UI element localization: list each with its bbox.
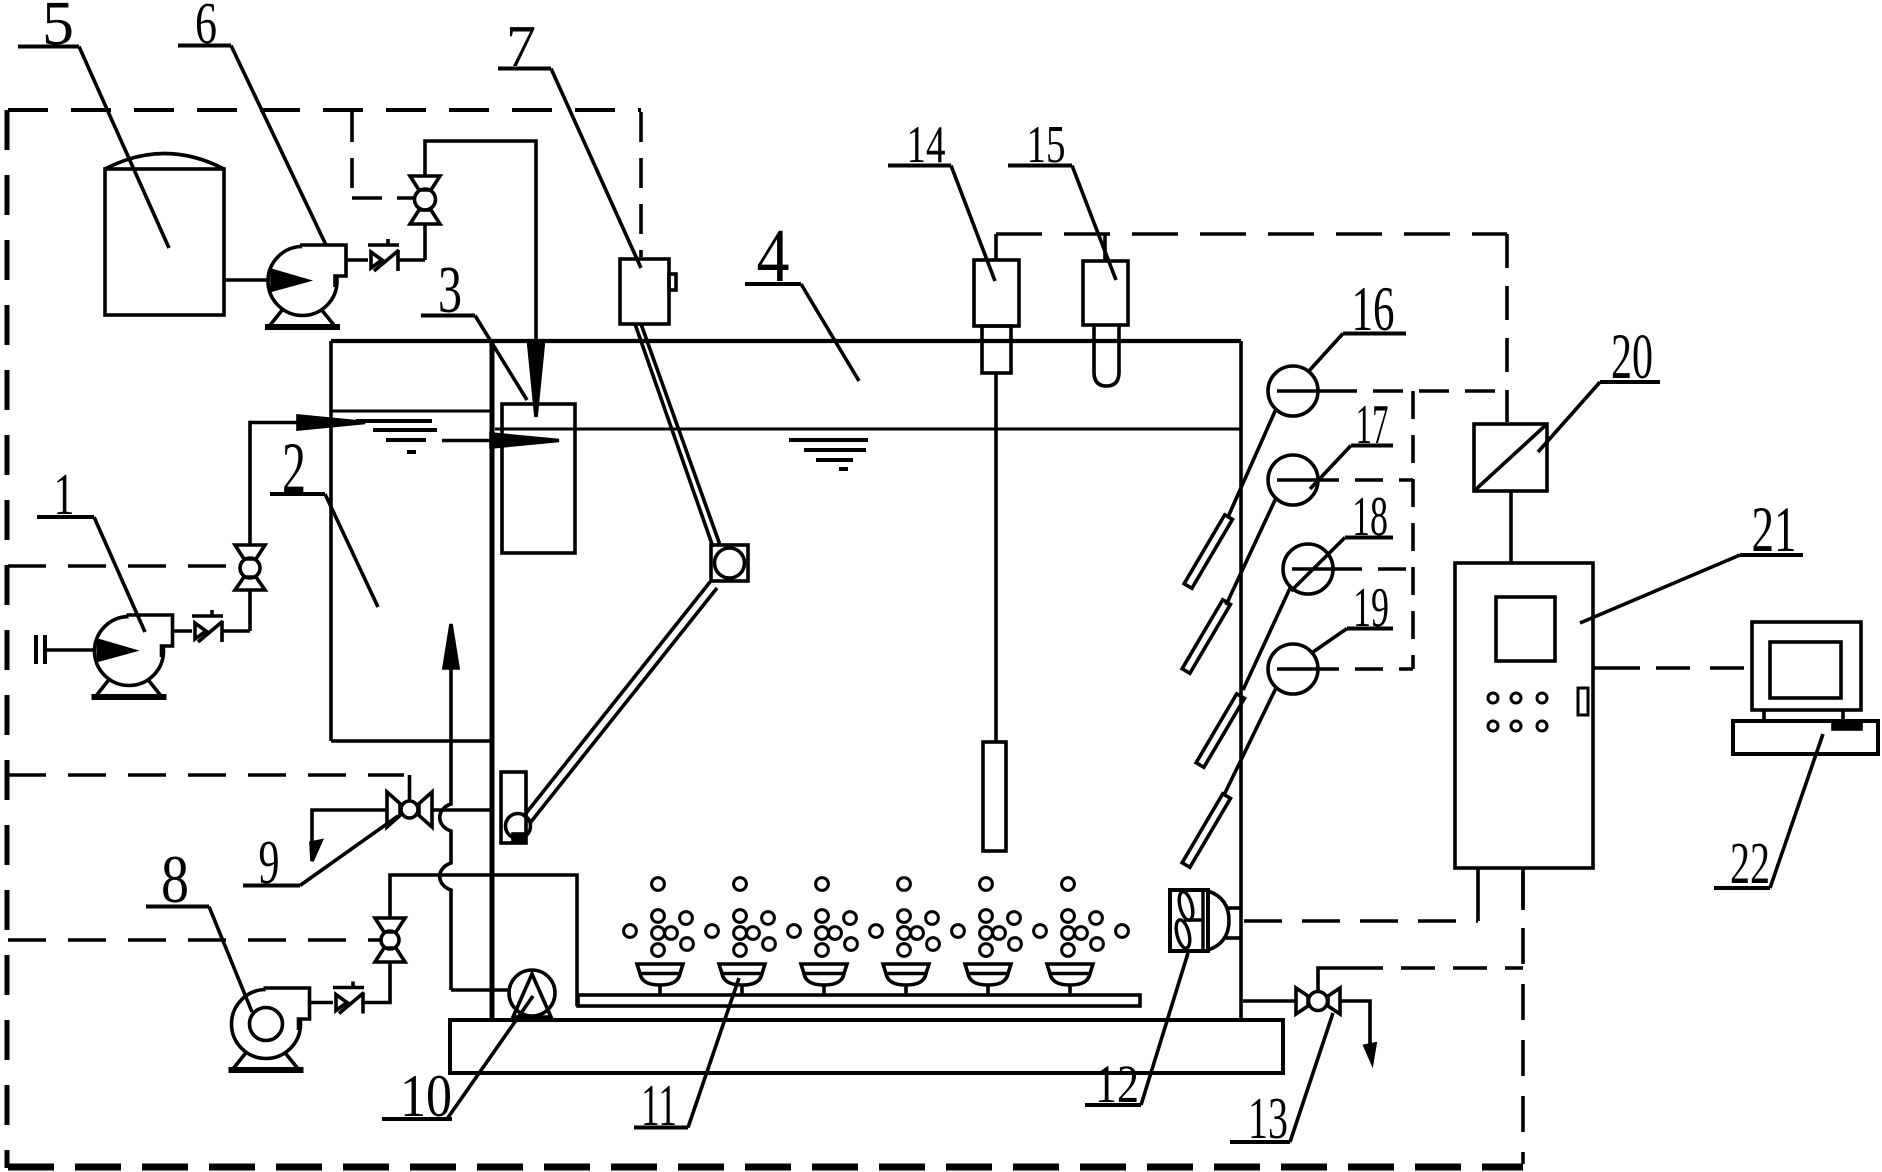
computer 22 screen — [1770, 642, 1841, 698]
tank 2 left wall — [329, 341, 333, 741]
control cabinet 21 — [1455, 563, 1593, 868]
drain 9 arrow tip — [311, 841, 321, 861]
stirrer 12 motor box — [1170, 890, 1208, 951]
computer 22 keyboard base — [1733, 721, 1878, 754]
dashed line to blower valve — [8, 938, 374, 942]
check valve pump 6 — [368, 239, 399, 271]
stray bubble right end — [1116, 925, 1129, 938]
dashed line sensor 16 to bus — [1327, 389, 1507, 393]
sensor 16 probe in tank — [1228, 409, 1276, 517]
dashed signal line stirrer to cabinet — [1244, 919, 1478, 923]
sensor circle 19 — [1268, 644, 1318, 694]
scraper drive box 7 — [620, 259, 669, 324]
dashed line sensor 18 — [1334, 567, 1413, 571]
dashed sensor bus vertical — [1411, 391, 1415, 669]
wire sensor 14 to bus — [994, 234, 998, 260]
sensor 14 electrode rod — [983, 742, 1006, 851]
wire pump 1 outlet — [173, 629, 193, 633]
dashed control line to dosing valve (horizontal) — [352, 196, 392, 200]
svg-text:5: 5 — [42, 0, 74, 58]
wire pump 1 riser — [248, 590, 252, 631]
scraper drive belt double line — [635, 324, 713, 547]
wire pump 6 outlet — [346, 258, 368, 262]
transfer arrow into box 3 — [442, 439, 495, 443]
sensor 14 level probe head — [974, 260, 1019, 326]
wire tank 5 to pump 6 suction — [224, 278, 270, 282]
tank 2 water line — [331, 410, 491, 413]
dashed line to pump-1 valve — [8, 564, 239, 568]
dashed signal drop below cabinet — [1521, 872, 1525, 1164]
valve 13 — [1296, 968, 1349, 1014]
dashed boundary bottom edge — [8, 1164, 1523, 1171]
sensor circle 17 — [1268, 455, 1318, 505]
tank 5 dome top — [105, 154, 224, 170]
diffuser stem — [658, 985, 662, 996]
sensor 14 hanging wire — [994, 373, 998, 742]
wire sensor 15 to bus — [1103, 234, 1107, 261]
dashed signal drop to transmitter 20 — [1505, 234, 1509, 422]
dashed signal line valve 13 to cabinet drop — [1349, 966, 1523, 970]
inlet arrow into tank 2 — [250, 421, 302, 425]
base pedestal — [450, 1020, 1283, 1073]
dosing down arrow — [529, 342, 544, 417]
dashed boundary top edge — [8, 108, 641, 112]
riser pipe from pump 10 to tank 2 with crossing jumps — [440, 668, 451, 990]
dosing chamber box 3 — [502, 404, 575, 553]
drain line of valve 9 — [312, 810, 387, 845]
valve 9 three-way — [387, 775, 432, 827]
tank 4 right wall — [1239, 341, 1243, 1020]
sensor 17 probe in tank — [1226, 498, 1276, 605]
dosing valve — [397, 176, 440, 224]
wire cabinet right drop — [1521, 868, 1525, 910]
tank 2 bottom — [331, 739, 491, 743]
dashed link cabinet to computer — [1593, 666, 1640, 670]
tank 4 water line — [495, 428, 1241, 431]
wire air feed down to header — [390, 875, 577, 1006]
lower pulley housing — [501, 772, 526, 843]
pump 10 triangle — [513, 974, 551, 1017]
valve on blower line — [374, 918, 405, 962]
riser flow arrow up — [444, 624, 458, 668]
sensor 15 probe head — [1083, 261, 1128, 325]
stirrer 12 dome — [1208, 891, 1229, 950]
check valve pump 8 — [333, 982, 364, 1014]
drain line with valve 13 — [1243, 999, 1296, 1003]
transmitter box 20 — [1474, 424, 1547, 491]
wire riser to pump 10 — [451, 988, 510, 992]
tank 2 water surface marks — [356, 421, 437, 452]
pump 1 suction flange — [34, 635, 38, 664]
wire transmitter to cabinet — [1509, 491, 1513, 563]
check valve pump 1 — [192, 610, 223, 642]
computer 22 stand legs — [1762, 710, 1766, 721]
cabinet door handle — [1578, 688, 1588, 715]
pump 8 air blower — [229, 988, 310, 1070]
pump 6 dosing pump — [265, 245, 346, 327]
cabinet screen — [1496, 597, 1555, 661]
pump 10 submersible circle — [509, 970, 555, 1016]
wire pump 8 outlet — [310, 1001, 334, 1005]
tank 4 water surface marks — [789, 440, 868, 469]
aerator diffusers 11 — [637, 964, 683, 996]
lower pulley belt anchor — [513, 834, 524, 842]
dashed signal bus top right — [996, 232, 1507, 236]
pump 1 raw water pump — [92, 615, 173, 697]
sensor circle 16 — [1268, 366, 1318, 416]
lower pulley — [506, 814, 531, 839]
computer 22 monitor — [1752, 622, 1861, 710]
drain 13 arrow tip — [1365, 1044, 1375, 1062]
upper pulley — [715, 548, 745, 578]
dashed line sensor 17 — [1311, 478, 1413, 482]
sensor 18 probe in tank — [1243, 586, 1291, 690]
valve on pump 1 line — [235, 545, 265, 590]
dashed control line to scraper drive 7 — [639, 112, 643, 257]
air bubbles cluster 1 — [624, 878, 694, 957]
aeration header pipe — [578, 995, 1140, 1006]
sensor 19 probe in tank — [1224, 688, 1276, 795]
wire dosing line up and over — [423, 224, 427, 260]
diffuser cap — [637, 964, 683, 974]
sensor circle 18 — [1283, 544, 1333, 594]
dashed control line to dosing valve (vertical) — [350, 112, 354, 198]
cabinet buttons — [1488, 693, 1547, 731]
dashed line to valve 9 — [8, 773, 404, 777]
scraper arm double line — [523, 582, 710, 817]
dashed boundary left edge — [5, 110, 10, 1168]
tank 4 top rim edge — [331, 339, 1241, 343]
partition wall between tank 2 and tank 4 — [490, 341, 495, 1020]
upper pulley housing — [711, 545, 748, 581]
svg-text:6: 6 — [195, 0, 217, 56]
wire cabinet left drop — [1476, 868, 1480, 921]
stirrer 12 propeller — [1174, 890, 1203, 951]
dashed line sensor 19 — [1311, 667, 1413, 671]
stirrer 12 neck to wall — [1226, 906, 1241, 910]
tank 5 dosing tank body — [105, 169, 224, 315]
